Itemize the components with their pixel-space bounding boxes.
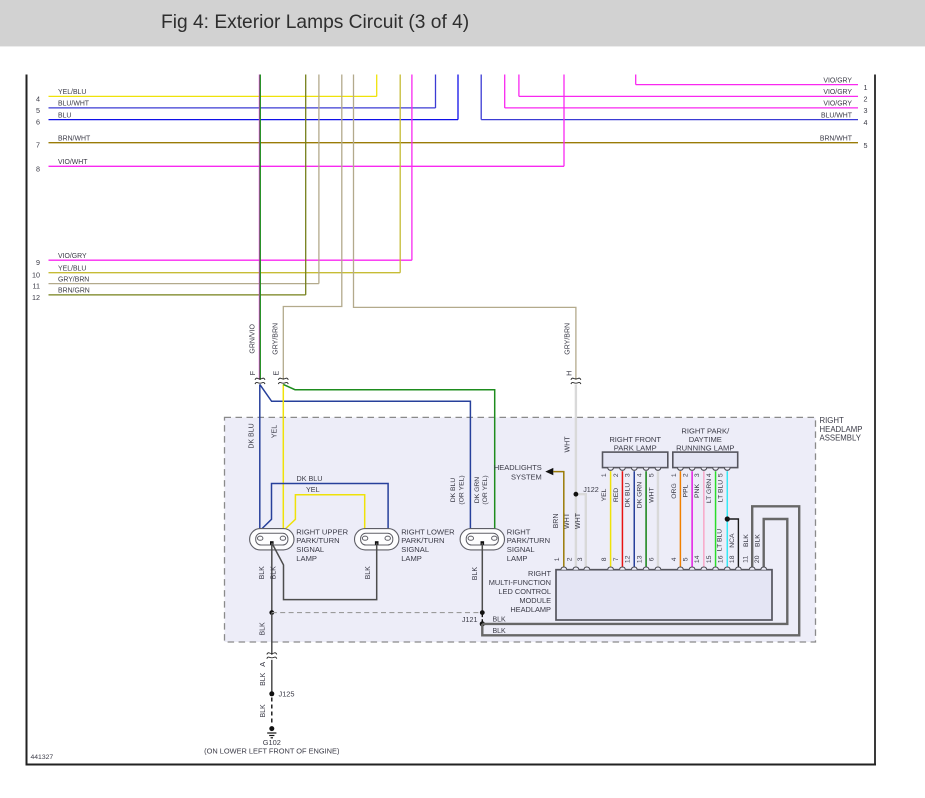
svg-text:2: 2: [864, 95, 868, 104]
svg-text:WHT: WHT: [648, 487, 655, 502]
svg-text:5: 5: [864, 141, 868, 150]
svg-text:RUNNING LAMP: RUNNING LAMP: [676, 444, 734, 453]
svg-text:7: 7: [36, 141, 40, 150]
svg-text:E: E: [272, 371, 281, 376]
svg-text:2: 2: [566, 557, 573, 561]
svg-text:BRN/WHT: BRN/WHT: [820, 136, 853, 143]
svg-text:BLK: BLK: [365, 566, 372, 580]
svg-text:VIO/GRY: VIO/GRY: [823, 101, 852, 108]
svg-text:LT BLU: LT BLU: [717, 529, 724, 552]
svg-text:YEL/BLU: YEL/BLU: [58, 266, 86, 273]
svg-text:1: 1: [554, 557, 561, 561]
svg-text:BRN/GRN: BRN/GRN: [58, 288, 90, 295]
svg-text:BLK: BLK: [493, 628, 507, 635]
svg-text:441327: 441327: [31, 754, 54, 761]
svg-text:18: 18: [729, 555, 736, 563]
svg-text:1: 1: [601, 473, 608, 477]
svg-text:DK BLU: DK BLU: [450, 478, 457, 503]
svg-text:WHT: WHT: [575, 512, 582, 529]
svg-text:RIGHT: RIGHT: [820, 416, 844, 425]
svg-text:PARK LAMP: PARK LAMP: [614, 444, 657, 453]
svg-text:16: 16: [718, 555, 725, 563]
svg-text:DK GRN: DK GRN: [636, 482, 643, 509]
svg-text:2: 2: [683, 473, 690, 477]
svg-text:4: 4: [36, 94, 40, 103]
svg-text:PARK/TURN: PARK/TURN: [401, 536, 444, 545]
svg-text:HEADLAMP: HEADLAMP: [510, 605, 551, 614]
svg-text:11: 11: [33, 282, 40, 291]
svg-text:GRY/BRN: GRY/BRN: [58, 276, 89, 283]
svg-text:13: 13: [636, 555, 643, 563]
svg-text:1: 1: [671, 473, 678, 477]
svg-text:10: 10: [32, 271, 40, 280]
svg-text:YEL: YEL: [271, 425, 278, 438]
svg-text:LED CONTROL: LED CONTROL: [498, 587, 551, 596]
svg-text:RED: RED: [613, 488, 620, 502]
svg-text:20: 20: [754, 555, 761, 563]
svg-text:LAMP: LAMP: [507, 554, 528, 563]
svg-text:WHT: WHT: [564, 436, 571, 453]
svg-text:(OR YEL): (OR YEL): [482, 475, 489, 504]
svg-text:BLK: BLK: [754, 534, 761, 547]
svg-text:5: 5: [648, 473, 655, 477]
svg-text:DK BLU: DK BLU: [249, 423, 256, 448]
svg-text:WHT: WHT: [564, 512, 571, 529]
svg-text:ASSEMBLY: ASSEMBLY: [820, 434, 862, 443]
svg-text:RIGHT UPPER: RIGHT UPPER: [296, 527, 348, 536]
svg-text:YEL: YEL: [601, 488, 608, 501]
svg-text:PARK/TURN: PARK/TURN: [296, 536, 339, 545]
svg-text:5: 5: [36, 106, 40, 115]
svg-text:4: 4: [864, 118, 868, 127]
svg-text:A: A: [258, 662, 267, 667]
svg-text:YEL: YEL: [306, 485, 320, 494]
svg-text:3: 3: [625, 473, 632, 477]
svg-text:LT BLU: LT BLU: [718, 480, 725, 503]
svg-text:12: 12: [32, 293, 40, 302]
svg-text:4: 4: [636, 473, 643, 477]
svg-text:NCA: NCA: [729, 533, 736, 548]
svg-text:PNK: PNK: [694, 484, 701, 498]
svg-text:3: 3: [694, 473, 701, 477]
svg-text:2: 2: [613, 473, 620, 477]
svg-text:J121: J121: [462, 615, 478, 624]
svg-text:BLU/WHT: BLU/WHT: [821, 112, 853, 119]
svg-text:BRN/WHT: BRN/WHT: [58, 136, 91, 143]
svg-text:8: 8: [36, 164, 40, 173]
svg-text:7: 7: [613, 557, 620, 561]
svg-text:8: 8: [601, 557, 608, 561]
svg-text:(OR YEL): (OR YEL): [459, 475, 466, 504]
svg-text:PPL: PPL: [683, 484, 690, 497]
svg-text:VIO/WHT: VIO/WHT: [58, 159, 88, 166]
svg-text:6: 6: [36, 118, 40, 127]
svg-text:12: 12: [625, 555, 632, 563]
svg-text:3: 3: [577, 557, 584, 561]
svg-text:LAMP: LAMP: [401, 554, 422, 563]
svg-text:BLK: BLK: [260, 622, 267, 636]
svg-text:RIGHT: RIGHT: [528, 569, 551, 578]
svg-text:SIGNAL: SIGNAL: [401, 545, 429, 554]
svg-text:MODULE: MODULE: [519, 596, 551, 605]
svg-text:DK BLU: DK BLU: [625, 483, 632, 508]
svg-text:BLK: BLK: [259, 566, 266, 580]
svg-text:BLU/WHT: BLU/WHT: [58, 101, 90, 108]
svg-text:VIO/GRY: VIO/GRY: [58, 253, 87, 260]
svg-text:GRN/VIO: GRN/VIO: [249, 323, 256, 353]
svg-text:BLK: BLK: [271, 566, 278, 580]
svg-text:5: 5: [683, 557, 690, 561]
svg-text:MULTI-FUNCTION: MULTI-FUNCTION: [489, 578, 551, 587]
svg-text:Fig 4: Exterior Lamps Circuit: Fig 4: Exterior Lamps Circuit (3 of 4): [161, 12, 469, 33]
svg-text:SYSTEM: SYSTEM: [511, 472, 542, 481]
svg-text:ORG: ORG: [671, 483, 678, 498]
svg-text:VIO/GRY: VIO/GRY: [823, 89, 852, 96]
svg-text:DK BLU: DK BLU: [297, 474, 323, 483]
svg-text:GRY/BRN: GRY/BRN: [565, 323, 572, 355]
svg-text:3: 3: [864, 106, 868, 115]
svg-text:4: 4: [706, 473, 713, 477]
svg-text:4: 4: [671, 557, 678, 561]
svg-text:RIGHT LOWER: RIGHT LOWER: [401, 527, 455, 536]
svg-text:14: 14: [694, 555, 701, 563]
svg-text:11: 11: [743, 556, 750, 563]
svg-text:BLK: BLK: [493, 617, 507, 624]
svg-text:BLK: BLK: [472, 567, 479, 581]
svg-text:LT GRN: LT GRN: [706, 479, 713, 503]
svg-text:BLK: BLK: [260, 672, 267, 686]
svg-text:1: 1: [864, 83, 868, 92]
svg-text:SIGNAL: SIGNAL: [507, 545, 535, 554]
svg-text:VIO/GRY: VIO/GRY: [823, 77, 852, 84]
svg-text:LAMP: LAMP: [296, 554, 317, 563]
svg-text:5: 5: [718, 473, 725, 477]
svg-text:15: 15: [706, 555, 713, 563]
svg-text:9: 9: [36, 258, 40, 267]
svg-text:DK GRN: DK GRN: [474, 477, 481, 504]
svg-text:PARK/TURN: PARK/TURN: [507, 536, 550, 545]
svg-text:BLK: BLK: [260, 704, 267, 718]
svg-text:GRY/BRN: GRY/BRN: [273, 323, 280, 355]
svg-text:J122: J122: [583, 485, 599, 494]
svg-text:(ON LOWER LEFT FRONT OF ENGINE: (ON LOWER LEFT FRONT OF ENGINE): [204, 747, 339, 756]
svg-text:BLU: BLU: [58, 112, 71, 119]
svg-text:HEADLIGHTS: HEADLIGHTS: [494, 463, 542, 472]
svg-text:H: H: [564, 371, 573, 376]
svg-text:HEADLAMP: HEADLAMP: [820, 425, 863, 434]
svg-text:RIGHT: RIGHT: [507, 527, 531, 536]
svg-text:YEL/BLU: YEL/BLU: [58, 89, 86, 96]
svg-text:BRN: BRN: [553, 514, 560, 529]
svg-text:6: 6: [648, 557, 655, 561]
svg-text:BLK: BLK: [743, 534, 750, 547]
svg-text:J125: J125: [279, 689, 295, 698]
svg-text:SIGNAL: SIGNAL: [296, 545, 324, 554]
svg-text:F: F: [248, 370, 257, 375]
